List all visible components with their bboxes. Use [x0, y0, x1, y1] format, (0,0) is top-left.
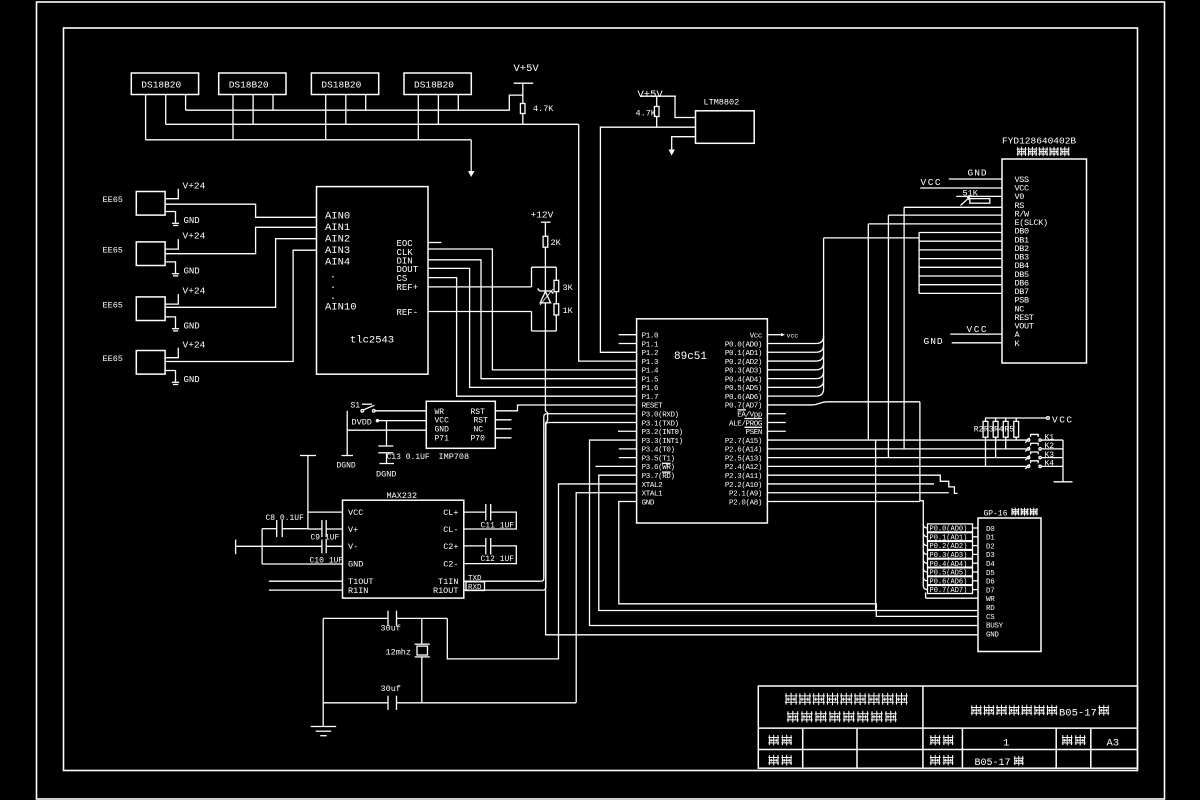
active-low overlines on 89c51 labels [738, 409, 747, 411]
printer GP-16 label [984, 510, 1008, 519]
wire CS to P1.7 [428, 278, 637, 397]
svg-text:RXD: RXD [468, 584, 482, 592]
svg-text:REF+: REF+ [397, 283, 419, 293]
RXD label box [466, 582, 485, 591]
wire P2.4 to key K4 [767, 465, 1026, 467]
svg-text:AIN2: AIN2 [325, 234, 350, 246]
wire V+5V to LTM8802 pin1 [675, 96, 696, 117]
capacitor C12 1UF [464, 545, 486, 547]
svg-text:R1IN: R1IN [348, 586, 368, 596]
svg-text:R5: R5 [1005, 426, 1015, 435]
svg-text:P2.1(A9): P2.1(A9) [729, 491, 762, 499]
power V+5V label (pullup) [514, 63, 540, 75]
school name text [971, 705, 982, 716]
EE65 sensor 2 GND stub [165, 262, 175, 273]
LCD V0 contrast pot 51K [956, 195, 1002, 197]
svg-text:C11 1UF: C11 1UF [481, 521, 515, 530]
bus GND down wire with arrow [470, 140, 472, 171]
svg-text:GND: GND [184, 266, 200, 276]
wire VCC riser [307, 456, 309, 529]
Vcc arrow wire [767, 334, 781, 336]
wire P3.0 RXD to MAX232 [547, 413, 637, 415]
svg-text:C2+: C2+ [443, 542, 458, 552]
DS18B20 U5 pin wires [417, 95, 419, 140]
svg-text:P1.7: P1.7 [642, 394, 658, 402]
svg-text:D0: D0 [986, 526, 995, 534]
svg-text:P2.4(A12): P2.4(A12) [725, 464, 762, 472]
svg-text:89c51: 89c51 [674, 351, 707, 363]
wire S1 left to DGND [346, 411, 348, 456]
cell quantity value [1003, 738, 1009, 750]
EE65 sensor 3 box [136, 297, 165, 321]
wire S1 to WR [375, 410, 426, 412]
svg-text:30uf: 30uf [381, 624, 401, 634]
svg-text:GND: GND [642, 499, 655, 507]
P1.0 P1.1 stubs [619, 334, 637, 336]
svg-text:C2-: C2- [443, 560, 458, 570]
printer WR wire [926, 597, 978, 599]
svg-text:GND: GND [968, 168, 988, 179]
EE65 sensor 4 GND stub [165, 371, 175, 382]
EE65 sensor 4 V+24 stub [165, 348, 178, 358]
svg-text:CS: CS [986, 614, 995, 622]
DS18B20 U3 pin wires [232, 95, 234, 140]
svg-text:VCC: VCC [348, 508, 363, 518]
wire EE65-4 to AIN3 [165, 250, 316, 361]
svg-text:P3.5(T1): P3.5(T1) [642, 455, 675, 463]
resistor R1 4.7K pullup [520, 104, 525, 114]
printer GP-16 box [978, 518, 1041, 652]
svg-text:V+5V: V+5V [514, 63, 540, 75]
wire DIN to P1.5 [428, 260, 637, 379]
svg-text:FYD128640402B: FYD128640402B [1002, 136, 1076, 147]
wire P2.5 to key K3 [767, 457, 1026, 459]
P2.1 wire [767, 492, 948, 494]
MCU U2 89c51 box [637, 319, 768, 523]
LCD DB0-DB7 wires [919, 232, 1002, 234]
DS18B20 sensor U3 box [219, 73, 286, 95]
svg-text:P2.7(A15): P2.7(A15) [725, 438, 762, 446]
1-wire bus VCC line [186, 95, 523, 110]
svg-text:30uf: 30uf [381, 684, 401, 694]
svg-text:V+24: V+24 [183, 180, 206, 191]
crystal ground leg [322, 618, 324, 726]
LCD RS wire [904, 206, 1002, 208]
EOC stub wire [428, 242, 441, 244]
cell drawing size value [1107, 738, 1120, 750]
svg-text:A3: A3 [1107, 738, 1120, 750]
svg-text:DS18B20: DS18B20 [141, 80, 181, 91]
svg-text:12mhz: 12mhz [386, 648, 412, 658]
svg-text:V+24: V+24 [183, 231, 206, 242]
resistor 4.7K (LTM) [656, 96, 658, 106]
EE65 sensor 2 V+24 stub [165, 239, 178, 249]
svg-text:D1: D1 [986, 535, 995, 543]
svg-text:AIN3: AIN3 [325, 245, 350, 257]
key switch K3 [1027, 456, 1029, 458]
wire GND pin routing to printer CS [619, 502, 978, 617]
LCD FYD12864 label [1002, 136, 1076, 147]
DS18B20 U2 pin wires [145, 95, 147, 140]
wire P3.3 INT1 to printer BUSY [590, 440, 979, 625]
DGND symbol 2 [380, 463, 395, 465]
svg-text:1: 1 [1003, 738, 1009, 750]
key switch K1 [1027, 439, 1029, 441]
svg-text:P1.6: P1.6 [642, 385, 659, 393]
svg-text:P1.5: P1.5 [642, 376, 659, 384]
wire P2.7 to key K1 [767, 439, 1027, 441]
svg-text:P71: P71 [435, 435, 450, 444]
svg-text:K2: K2 [1045, 442, 1055, 451]
svg-text:EE65: EE65 [103, 300, 123, 310]
svg-text:IMP708: IMP708 [439, 452, 470, 462]
svg-text:P0.5(AD5): P0.5(AD5) [725, 385, 762, 393]
wire XTAL2 to crystal [447, 484, 636, 659]
svg-text:2K: 2K [551, 238, 562, 248]
svg-text:GND: GND [924, 336, 944, 347]
keys common ground [1062, 440, 1064, 482]
svg-text:B05-17: B05-17 [975, 758, 1011, 769]
svg-text:R4: R4 [994, 426, 1004, 435]
P3.5 stub [619, 457, 637, 459]
capacitor C8 0.1UF [262, 528, 277, 530]
svg-text:RD: RD [986, 605, 995, 613]
svg-text:K3: K3 [1045, 451, 1055, 460]
svg-text:DGND: DGND [337, 462, 356, 471]
EE65 sensor 2 label [103, 245, 123, 255]
wire REF+ to divider [428, 286, 532, 288]
LTM8802 module box [696, 111, 755, 144]
wire P2.6 to key K2 [767, 448, 1026, 450]
key switch K2 [1027, 448, 1029, 450]
svg-text:CL+: CL+ [443, 508, 458, 518]
DVDD label arrow [352, 417, 372, 427]
LCD module box [1002, 159, 1087, 363]
svg-text:.: . [330, 281, 336, 292]
LCD chinese label [1017, 147, 1027, 157]
earth ground symbol [311, 726, 337, 728]
wire CLK to P1.4 [428, 249, 637, 370]
EE65 sensor 3 GND stub [165, 317, 175, 328]
svg-text:AIN4: AIN4 [325, 257, 350, 269]
capacitor C11 1UF [464, 511, 486, 513]
svg-text:3K: 3K [563, 283, 574, 293]
P3.6 stub wire [596, 465, 637, 467]
+12V power bar [541, 221, 551, 223]
EE65 sensor 1 V+24 stub [165, 189, 178, 199]
cell label zhitu [768, 735, 779, 746]
capacitor C9 1UF [308, 528, 322, 530]
svg-text:P3.2(INT0): P3.2(INT0) [642, 429, 683, 437]
title text line 1 [785, 693, 797, 705]
svg-text:1K: 1K [563, 306, 574, 316]
crystal top rail [323, 617, 388, 619]
EA ALE PSEN stubs [767, 413, 785, 415]
DGND symbol 1 [342, 455, 354, 457]
EE65 sensor 2 box [136, 242, 165, 266]
svg-text:DVDD: DVDD [352, 417, 372, 427]
EE65 sensor 1 box [136, 192, 165, 216]
P2.0 wire [767, 501, 920, 503]
LCD backlight K GND wire [952, 342, 1002, 344]
svg-text:DS18B20: DS18B20 [414, 80, 454, 91]
P3.2 stub [618, 430, 637, 432]
svg-text:LTM8802: LTM8802 [704, 98, 740, 108]
svg-text:K1: K1 [1045, 433, 1055, 442]
DS18B20 sensor U5 box [404, 73, 471, 95]
wire P3.1 TXD to MAX232 [549, 422, 637, 424]
svg-text:P1.4: P1.4 [642, 368, 659, 376]
svg-text:C13 0.1UF: C13 0.1UF [387, 453, 430, 462]
resistor R5 [1015, 418, 1017, 421]
P2.2 wire [767, 483, 934, 485]
svg-text:+12V: +12V [531, 210, 554, 221]
IMP708 right stubs [495, 419, 511, 421]
svg-text:P2.0(A8): P2.0(A8) [729, 499, 762, 507]
transceiver U4 MAX232 box [343, 500, 464, 598]
svg-text:P0.6(AD6): P0.6(AD6) [725, 394, 762, 402]
power +12V label [531, 210, 554, 221]
svg-text:Vcc: Vcc [750, 333, 762, 341]
svg-text:GND: GND [435, 426, 450, 435]
wire P0.7 to printer label bus [767, 404, 812, 406]
svg-text:P3.0(RXD): P3.0(RXD) [642, 412, 679, 420]
svg-text:V+24: V+24 [183, 286, 206, 297]
svg-text:P3.6(WR): P3.6(WR) [642, 464, 675, 472]
switch S1 [351, 402, 361, 411]
resistor 2K [544, 222, 546, 236]
wire LCD R/W to P2.5 column [887, 215, 889, 458]
svg-text:R3: R3 [984, 426, 994, 435]
LCD bus top link [824, 237, 920, 239]
svg-text:RESET: RESET [642, 403, 663, 411]
svg-text:DGND: DGND [376, 470, 396, 480]
svg-text:AIN1: AIN1 [325, 222, 350, 234]
svg-text:tlc2543: tlc2543 [350, 335, 394, 347]
svg-text:P2.2(A10): P2.2(A10) [725, 482, 762, 490]
svg-text:GND: GND [348, 560, 363, 570]
wire RST to 89c51 RESET [495, 405, 636, 411]
svg-text:C12 1UF: C12 1UF [481, 555, 515, 564]
svg-text:VCC: VCC [1052, 414, 1074, 425]
EE65 sensor 1 label [103, 195, 123, 205]
wire LCD E to P2.7 column [867, 224, 869, 440]
svg-text:.: . [330, 271, 336, 282]
svg-text:51K: 51K [963, 189, 979, 199]
svg-text:P0.4(AD4): P0.4(AD4) [725, 376, 762, 384]
svg-text:AIN10: AIN10 [325, 302, 357, 314]
power V+5V label (LTM8802) [638, 89, 664, 101]
svg-text:EE65: EE65 [103, 245, 123, 255]
svg-text:XTAL1: XTAL1 [642, 491, 663, 499]
svg-text:C9 1UF: C9 1UF [311, 533, 340, 542]
LCD VSS GND wire [949, 178, 1002, 180]
title text line 2 [787, 711, 799, 723]
1-wire bus DQ line [166, 123, 579, 125]
EE65 sensor 4 label [103, 354, 123, 364]
wire EE65-3 to AIN2 [165, 239, 316, 308]
svg-text:S1: S1 [351, 402, 361, 411]
resistor R3 [995, 418, 997, 421]
zener diode D1 [544, 267, 546, 291]
wire XTAL1 to crystal [576, 493, 636, 703]
VCC label for keys [985, 417, 1047, 419]
resistor R4 [1005, 418, 1007, 421]
svg-text:AIN0: AIN0 [325, 211, 350, 223]
crystal Y1 12mhz [421, 618, 423, 644]
svg-text:GND: GND [184, 321, 200, 331]
svg-text:P1.1: P1.1 [642, 341, 659, 349]
svg-text:GND: GND [986, 631, 999, 639]
resistor 3K [555, 267, 557, 280]
svg-text:V+5V: V+5V [638, 89, 664, 101]
EE65 sensor 1 GND stub [165, 212, 175, 223]
ADC U1 tlc2543 box [317, 187, 429, 375]
svg-text:WR: WR [435, 408, 445, 417]
svg-text:D2: D2 [986, 543, 994, 551]
svg-text:P3.3(INT1): P3.3(INT1) [642, 438, 683, 446]
svg-text:D6: D6 [986, 579, 995, 587]
wire DOUT to P1.6 [428, 268, 637, 387]
svg-text:P70: P70 [471, 435, 486, 444]
svg-text:VCC: VCC [921, 177, 943, 188]
svg-text:P1.2: P1.2 [642, 350, 658, 358]
svg-text:WR: WR [986, 596, 995, 604]
T1OUT R1IN wires [269, 580, 343, 582]
LCD backlight A VCC wire [950, 333, 1002, 335]
svg-text:R2: R2 [974, 426, 984, 435]
svg-text:P3.7(RD): P3.7(RD) [642, 473, 675, 481]
svg-text:D5: D5 [986, 570, 995, 578]
svg-text:NC: NC [474, 426, 484, 435]
svg-text:EE65: EE65 [103, 195, 123, 205]
EE65 sensor 4 box [136, 351, 165, 375]
cell class value [975, 758, 1011, 769]
+5V bar above MAX232 [300, 455, 316, 457]
svg-text:vcc: vcc [787, 333, 799, 340]
svg-text:RST: RST [471, 408, 486, 417]
wire DVDD to VCC pin [377, 420, 426, 422]
svg-text:K4: K4 [1045, 460, 1055, 469]
svg-text:MAX232: MAX232 [387, 491, 418, 501]
svg-text:P3.1(TXD): P3.1(TXD) [642, 420, 679, 428]
cell label banji [930, 755, 941, 766]
wire REF- to divider [428, 311, 532, 313]
svg-text:C8 0.1UF: C8 0.1UF [266, 514, 305, 523]
wire EE65-1 to AIN0 [165, 204, 316, 217]
LCD VCC wire [920, 187, 1002, 189]
V+5V power bar 2 [640, 95, 676, 97]
svg-text:PSEN: PSEN [746, 429, 762, 437]
printer data net labels P0.0-P0.7 [928, 524, 973, 532]
TXD label [468, 575, 482, 583]
svg-text:P2.5(A13): P2.5(A13) [725, 455, 762, 463]
divider network frame [532, 266, 557, 268]
wire P2.3 staircase jogs [767, 475, 957, 493]
svg-text:REF-: REF- [397, 308, 419, 318]
svg-text:B05-17: B05-17 [1059, 708, 1097, 720]
svg-text:R1OUT: R1OUT [433, 586, 459, 596]
DS18B20 sensor U4 box [311, 73, 378, 95]
MAX232 ground rail [261, 529, 263, 564]
wire +12V node down to printer GND rail [545, 331, 978, 635]
svg-text:VCC: VCC [435, 417, 450, 426]
supervisor U3 IMP708 box [426, 401, 495, 448]
LCD R/W wire [888, 214, 1002, 216]
svg-text:P0.2(AD2): P0.2(AD2) [725, 359, 762, 367]
resistor R2 [985, 418, 987, 421]
svg-text:BUSY: BUSY [986, 623, 1004, 631]
LCD E wire [868, 223, 1002, 225]
svg-text:P0.3(AD3): P0.3(AD3) [725, 368, 762, 376]
wire LCD RS to P2.6 column [903, 207, 905, 449]
wire LTM8802 data to P1.2 [600, 127, 695, 352]
V+5V power bar [514, 82, 534, 84]
LCD data bus riser [823, 238, 825, 389]
1-wire bus GND line [146, 139, 472, 141]
svg-text:D7: D7 [986, 587, 994, 595]
crystal bottom rail [323, 702, 388, 704]
column to printer RD [875, 440, 877, 610]
capacitor 30uf bottom [387, 696, 389, 710]
svg-text:GP-16: GP-16 [984, 510, 1008, 519]
svg-text:4.7K: 4.7K [533, 104, 554, 114]
DS18B20 sensor U2 box [131, 73, 198, 95]
svg-text:V-: V- [348, 542, 358, 552]
svg-text:V+: V+ [348, 525, 358, 535]
svg-text:D3: D3 [986, 552, 995, 560]
DS18B20 U4 pin wires [325, 95, 327, 140]
svg-text:P3.4(T0): P3.4(T0) [642, 447, 675, 455]
wire V+5V to bus [522, 83, 524, 103]
svg-text:DS18B20: DS18B20 [229, 80, 269, 91]
EE65 sensor 3 V+24 stub [165, 294, 178, 304]
EE65 sensor 3 label [103, 300, 123, 310]
svg-text:P1.0: P1.0 [642, 333, 659, 341]
svg-text:GND: GND [184, 375, 200, 385]
svg-text:XTAL2: XTAL2 [642, 482, 663, 490]
cell label shenhe [768, 755, 779, 766]
svg-text:DS18B20: DS18B20 [321, 80, 361, 91]
svg-text:VCC: VCC [967, 324, 989, 335]
svg-text:GND: GND [184, 216, 200, 226]
wire EE65-2 to AIN1 [165, 227, 316, 253]
capacitor 30uf top [387, 611, 389, 626]
wire P3.7 RD to printer [599, 475, 978, 610]
svg-text:P0.0(AD0): P0.0(AD0) [725, 341, 762, 349]
svg-text:P0.7(AD7): P0.7(AD7) [930, 587, 968, 595]
cell label tuhao [1062, 735, 1073, 746]
capacitor C13 0.1UF [386, 421, 388, 446]
P3.4 stub [619, 448, 637, 450]
svg-text:P1.3: P1.3 [642, 359, 659, 367]
svg-text:4.7K: 4.7K [636, 109, 657, 119]
title block frame [758, 686, 1137, 768]
svg-text:V+24: V+24 [183, 339, 206, 350]
wire GND pin rail [347, 429, 426, 431]
svg-text:RST: RST [474, 417, 489, 426]
svg-text:P2.6(A14): P2.6(A14) [725, 447, 762, 455]
capacitor C10 1UF and V- terminal [235, 540, 237, 555]
resistor 1K [554, 304, 559, 315]
svg-text:P0.1(AD1): P0.1(AD1) [725, 350, 762, 358]
LCD DB spine [918, 233, 920, 294]
cell label shuliang [930, 735, 941, 746]
svg-text:CL-: CL- [443, 525, 458, 535]
svg-text:D4: D4 [986, 561, 995, 569]
svg-text:EE65: EE65 [103, 354, 123, 364]
P0 bus wires to LCD arcs [767, 342, 816, 344]
